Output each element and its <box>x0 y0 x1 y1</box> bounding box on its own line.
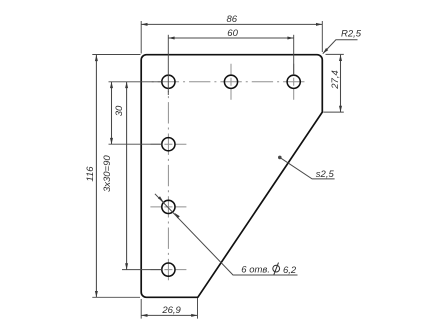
svg-text:26,9: 26,9 <box>161 305 181 316</box>
centerline horizontal hole 4 <box>150 269 186 271</box>
hole 4 left column <box>162 263 175 276</box>
centerline row holes top <box>151 81 308 83</box>
dimension 30 <box>109 82 162 144</box>
svg-text:116: 116 <box>85 166 96 182</box>
plate outline <box>141 55 322 298</box>
dimension 27,4 <box>323 54 344 112</box>
centerline vertical hole B <box>230 64 232 100</box>
hole 2 left column <box>162 138 175 151</box>
hole C top-right <box>287 75 300 88</box>
svg-text:R2,5: R2,5 <box>341 29 362 40</box>
centerline vertical hole C <box>293 64 295 100</box>
svg-text:86: 86 <box>227 14 238 25</box>
leader 6 holes diameter 6,2 <box>155 194 298 275</box>
dimension 3x30=90 <box>122 82 162 270</box>
hole A1 top-left <box>162 75 175 88</box>
dimension 86 <box>141 21 322 54</box>
hole B top-middle <box>224 75 237 88</box>
hole 3 left column <box>162 200 175 213</box>
centerline horizontal hole 2 <box>150 143 186 145</box>
centerline horizontal hole 3 <box>150 206 186 208</box>
svg-text:s2,5: s2,5 <box>316 169 335 180</box>
diameter symbol <box>273 263 280 275</box>
svg-text:30: 30 <box>114 105 125 116</box>
dimension 60 <box>168 35 293 95</box>
svg-text:27,4: 27,4 <box>330 70 341 90</box>
dimension 116 <box>92 55 140 298</box>
centerline column holes left <box>167 91 169 284</box>
svg-text:6 отв.: 6 отв. <box>241 265 270 276</box>
svg-text:60: 60 <box>227 28 238 39</box>
svg-text:3x30=90: 3x30=90 <box>102 155 113 192</box>
svg-text:6,2: 6,2 <box>283 265 297 276</box>
leader R2,5 <box>322 40 358 55</box>
dimension 26,9 <box>141 298 197 319</box>
leader s2,5 <box>278 156 335 179</box>
